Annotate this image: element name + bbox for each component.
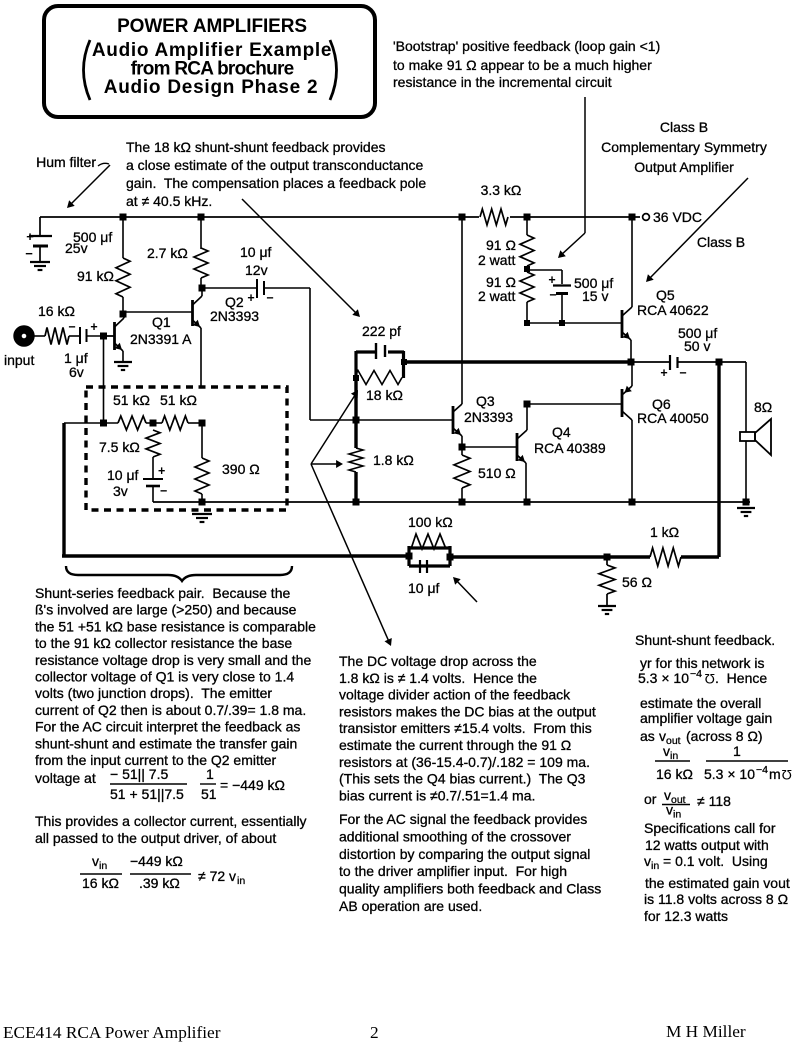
svg-text:−: −: [549, 288, 556, 302]
svg-text:resistance voltage drop is ver: resistance voltage drop is very small an…: [35, 652, 311, 668]
svg-text:2: 2: [370, 1023, 379, 1042]
svg-text:ß's involved are large (>250): ß's involved are large (>250) and becaus…: [35, 602, 297, 618]
svg-text:additional smoothing of the cr: additional smoothing of the crossover: [339, 828, 571, 844]
svg-text:all passed to the output drive: all passed to the output driver, of abou…: [35, 830, 276, 846]
svg-text:gain. The compensation places: gain. The compensation places a feedback…: [126, 175, 426, 191]
svg-text:For the AC circuit interpret t: For the AC circuit interpret the feedbac…: [35, 719, 300, 735]
svg-text:in: in: [237, 875, 245, 887]
svg-text:Q1: Q1: [152, 314, 171, 330]
svg-text:voltage divider action of the: voltage divider action of the feedback: [339, 687, 571, 703]
svg-text:50 v: 50 v: [684, 338, 710, 354]
svg-text:to the driver amplifier input.: to the driver amplifier input. For high: [339, 863, 567, 879]
svg-text:2 watt: 2 watt: [478, 252, 515, 268]
svg-text:(This sets the Q4 bias current: (This sets the Q4 bias current.) The Q3: [339, 771, 586, 787]
svg-text:2N3393: 2N3393: [210, 308, 259, 324]
svg-text:amplifier voltage gain: amplifier voltage gain: [640, 710, 772, 726]
svg-text:quality amplifiers both feedba: quality amplifiers both feedback and Cla…: [339, 881, 601, 897]
svg-text:Hum filter: Hum filter: [36, 154, 96, 170]
svg-text:resistors at (36-15.4-0.7)/.18: resistors at (36-15.4-0.7)/.182 = 109 ma…: [339, 754, 590, 770]
svg-text:Q5: Q5: [656, 287, 675, 303]
svg-text:shunt-shunt and estimate the t: shunt-shunt and estimate the transfer ga…: [35, 735, 297, 751]
svg-text:is 11.8 volts across 8 Ω: is 11.8 volts across 8 Ω: [644, 891, 788, 907]
svg-text:Ω: Ω: [705, 671, 715, 687]
svg-text:POWER AMPLIFIERS: POWER AMPLIFIERS: [117, 16, 307, 37]
svg-text:estimate the overall: estimate the overall: [640, 695, 761, 711]
svg-text:For the AC signal the feedback: For the AC signal the feedback provides: [339, 811, 587, 827]
svg-text:91 kΩ: 91 kΩ: [77, 268, 114, 284]
svg-text:Shunt-shunt feedback.: Shunt-shunt feedback.: [635, 632, 775, 648]
svg-text:resistance in the incremental: resistance in the incremental circuit: [393, 74, 612, 90]
svg-text:v: v: [92, 853, 99, 869]
svg-text:to make 91 Ω appear to be a mu: to make 91 Ω appear to be a much higher: [393, 57, 652, 73]
svg-text:1 kΩ: 1 kΩ: [650, 524, 679, 540]
svg-text:v: v: [659, 728, 666, 744]
svg-text:= −449 kΩ: = −449 kΩ: [220, 777, 285, 793]
svg-text:7.5 kΩ: 7.5 kΩ: [99, 439, 140, 455]
svg-text:+: +: [247, 291, 254, 305]
svg-text:. Hence: . Hence: [715, 670, 767, 686]
svg-text:16 kΩ: 16 kΩ: [38, 303, 75, 319]
svg-text:16 kΩ: 16 kΩ: [656, 766, 693, 782]
svg-text:estimate the current through t: estimate the current through the 91 Ω: [339, 737, 571, 753]
svg-text:51 + 51||7.5: 51 + 51||7.5: [110, 786, 184, 802]
svg-text:in: in: [673, 809, 681, 821]
svg-text:in: in: [670, 750, 678, 762]
svg-text:.39 kΩ: .39 kΩ: [139, 875, 180, 891]
svg-text:56 Ω: 56 Ω: [622, 574, 652, 590]
svg-text:for 12.3 watts: for 12.3 watts: [644, 908, 728, 924]
svg-text:'Bootstrap' positive feedback: 'Bootstrap' positive feedback (loop gain…: [393, 38, 660, 54]
svg-text:current of Q2 then is about 0.: current of Q2 then is about 0.7/.39= 1.8…: [35, 702, 306, 718]
svg-text:2.7 kΩ: 2.7 kΩ: [147, 245, 188, 261]
svg-text:This provides a collector curr: This provides a collector current, essen…: [35, 813, 307, 829]
svg-text:M H Miller: M H Miller: [666, 1022, 746, 1041]
svg-text:1: 1: [733, 743, 741, 759]
svg-text:Q3: Q3: [476, 393, 495, 409]
svg-text:−: −: [68, 320, 75, 334]
svg-text:m: m: [769, 766, 781, 782]
svg-text:51: 51: [201, 786, 217, 802]
svg-text:volts (two junction drops). T: volts (two junction drops). The emitter: [35, 685, 272, 701]
svg-text:−: −: [266, 291, 273, 305]
svg-text:91 Ω: 91 Ω: [486, 237, 516, 253]
svg-text:18 kΩ: 18 kΩ: [366, 387, 403, 403]
svg-text:as: as: [640, 728, 655, 744]
svg-text:−4: −4: [690, 668, 702, 680]
svg-text:collector voltage of Q1 is ver: collector voltage of Q1 is very close to…: [35, 669, 294, 685]
svg-text:The 18 kΩ shunt-shunt feedback: The 18 kΩ shunt-shunt feedback provides: [126, 139, 386, 155]
svg-text:The DC voltage drop across the: The DC voltage drop across the: [339, 653, 537, 669]
svg-text:voltage at: voltage at: [35, 770, 96, 786]
svg-text:−4: −4: [756, 764, 768, 776]
svg-text:−449 kΩ: −449 kΩ: [130, 853, 183, 869]
svg-text:(across 8 Ω): (across 8 Ω): [686, 728, 763, 744]
svg-text:3.3 kΩ: 3.3 kΩ: [481, 182, 522, 198]
svg-text:222 pf: 222 pf: [362, 323, 401, 339]
svg-text:6v: 6v: [69, 364, 84, 380]
svg-text:+: +: [26, 229, 34, 244]
svg-text:≠ 72 v: ≠ 72 v: [198, 868, 236, 884]
svg-text:5.3 × 10: 5.3 × 10: [638, 670, 689, 686]
svg-text:ECE414 RCA Power Amplifier: ECE414 RCA Power Amplifier: [3, 1023, 221, 1042]
svg-text:+: +: [90, 320, 97, 334]
svg-text:16 kΩ: 16 kΩ: [82, 875, 119, 891]
svg-text:Class B: Class B: [697, 234, 745, 250]
svg-text:v: v: [663, 743, 670, 759]
svg-text:Audio Design Phase 2: Audio Design Phase 2: [104, 77, 319, 98]
svg-text:1.8 kΩ: 1.8 kΩ: [373, 452, 414, 468]
svg-text:or: or: [644, 791, 657, 807]
svg-text:RCA 40050: RCA 40050: [637, 410, 709, 426]
svg-text:Complementary Symmetry: Complementary Symmetry: [601, 139, 767, 155]
svg-text:3v: 3v: [113, 483, 128, 499]
svg-text:1: 1: [206, 766, 214, 782]
svg-text:the estimated gain vout: the estimated gain vout: [645, 875, 790, 891]
svg-text:2N3391 A: 2N3391 A: [130, 331, 192, 347]
svg-text:36 VDC: 36 VDC: [653, 209, 702, 225]
svg-text:5.3 × 10: 5.3 × 10: [704, 766, 755, 782]
svg-text:Output Amplifier: Output Amplifier: [634, 159, 734, 175]
svg-text:transistor emitters ≠15.4 volt: transistor emitters ≠15.4 volts. From th…: [339, 720, 592, 736]
svg-text:510 Ω: 510 Ω: [478, 465, 516, 481]
svg-text:≠ 118: ≠ 118: [697, 793, 731, 809]
svg-text:2 watt: 2 watt: [478, 288, 515, 304]
svg-text:100 kΩ: 100 kΩ: [408, 514, 453, 530]
svg-text:yr for this network is: yr for this network is: [640, 655, 764, 671]
svg-text:resistors makes the DC bias at: resistors makes the DC bias at the outpu…: [339, 703, 596, 719]
svg-text:+: +: [158, 464, 165, 478]
svg-text:Q4: Q4: [552, 424, 571, 440]
svg-text:v: v: [666, 802, 673, 818]
svg-text:in: in: [651, 860, 659, 872]
svg-text:AB operation are used.: AB operation are used.: [339, 898, 482, 914]
svg-text:25v: 25v: [65, 240, 88, 256]
svg-text:−: −: [160, 484, 167, 498]
svg-text:a close estimate of the output: a close estimate of the output transcond…: [126, 157, 424, 173]
svg-text:2N3393: 2N3393: [464, 409, 513, 425]
svg-text:RCA 40622: RCA 40622: [637, 302, 709, 318]
svg-text:51 kΩ: 51 kΩ: [160, 392, 197, 408]
svg-text:− 51|| 7.5: − 51|| 7.5: [110, 766, 168, 782]
svg-text:12 watts output with: 12 watts output with: [645, 837, 769, 853]
svg-text:Shunt-series feedback pair. B: Shunt-series feedback pair. Because the: [35, 585, 290, 601]
svg-text:390 Ω: 390 Ω: [222, 461, 260, 477]
svg-text:= 0.1 volt. Using: = 0.1 volt. Using: [663, 853, 768, 869]
svg-text:bias current is ≠0.7/.51=1.4 m: bias current is ≠0.7/.51=1.4 ma.: [339, 787, 535, 803]
svg-text:51 kΩ: 51 kΩ: [113, 392, 150, 408]
svg-text:8Ω: 8Ω: [754, 399, 772, 415]
svg-text:−: −: [679, 366, 686, 380]
svg-text:Ω: Ω: [782, 767, 792, 783]
svg-text:in: in: [99, 860, 107, 872]
svg-text:12v: 12v: [245, 262, 268, 278]
svg-text:the 51 +51 kΩ base resistance: the 51 +51 kΩ base resistance is compara…: [35, 618, 316, 634]
svg-text:10 μf: 10 μf: [240, 244, 272, 260]
svg-text:input: input: [4, 352, 34, 368]
svg-text:RCA 40389: RCA 40389: [534, 440, 606, 456]
svg-text:Specifications call for: Specifications call for: [644, 820, 776, 836]
svg-text:Class B: Class B: [660, 119, 708, 135]
svg-text:10 μf: 10 μf: [408, 580, 440, 596]
svg-text:−: −: [25, 246, 33, 261]
svg-text:+: +: [548, 273, 555, 287]
svg-text:at ≠ 40.5 kHz.: at ≠ 40.5 kHz.: [126, 193, 212, 209]
svg-text:v: v: [644, 853, 651, 869]
svg-text:to the 91 kΩ collector resista: to the 91 kΩ collector resistance the ba…: [35, 635, 292, 651]
svg-text:1.8 kΩ is ≠ 1.4 volts. Hence: 1.8 kΩ is ≠ 1.4 volts. Hence the: [339, 670, 537, 686]
svg-text:+: +: [660, 366, 667, 380]
svg-text:10 μf: 10 μf: [107, 467, 139, 483]
svg-text:distortion by comparing the ou: distortion by comparing the output signa…: [339, 846, 590, 862]
svg-text:15 v: 15 v: [582, 288, 608, 304]
